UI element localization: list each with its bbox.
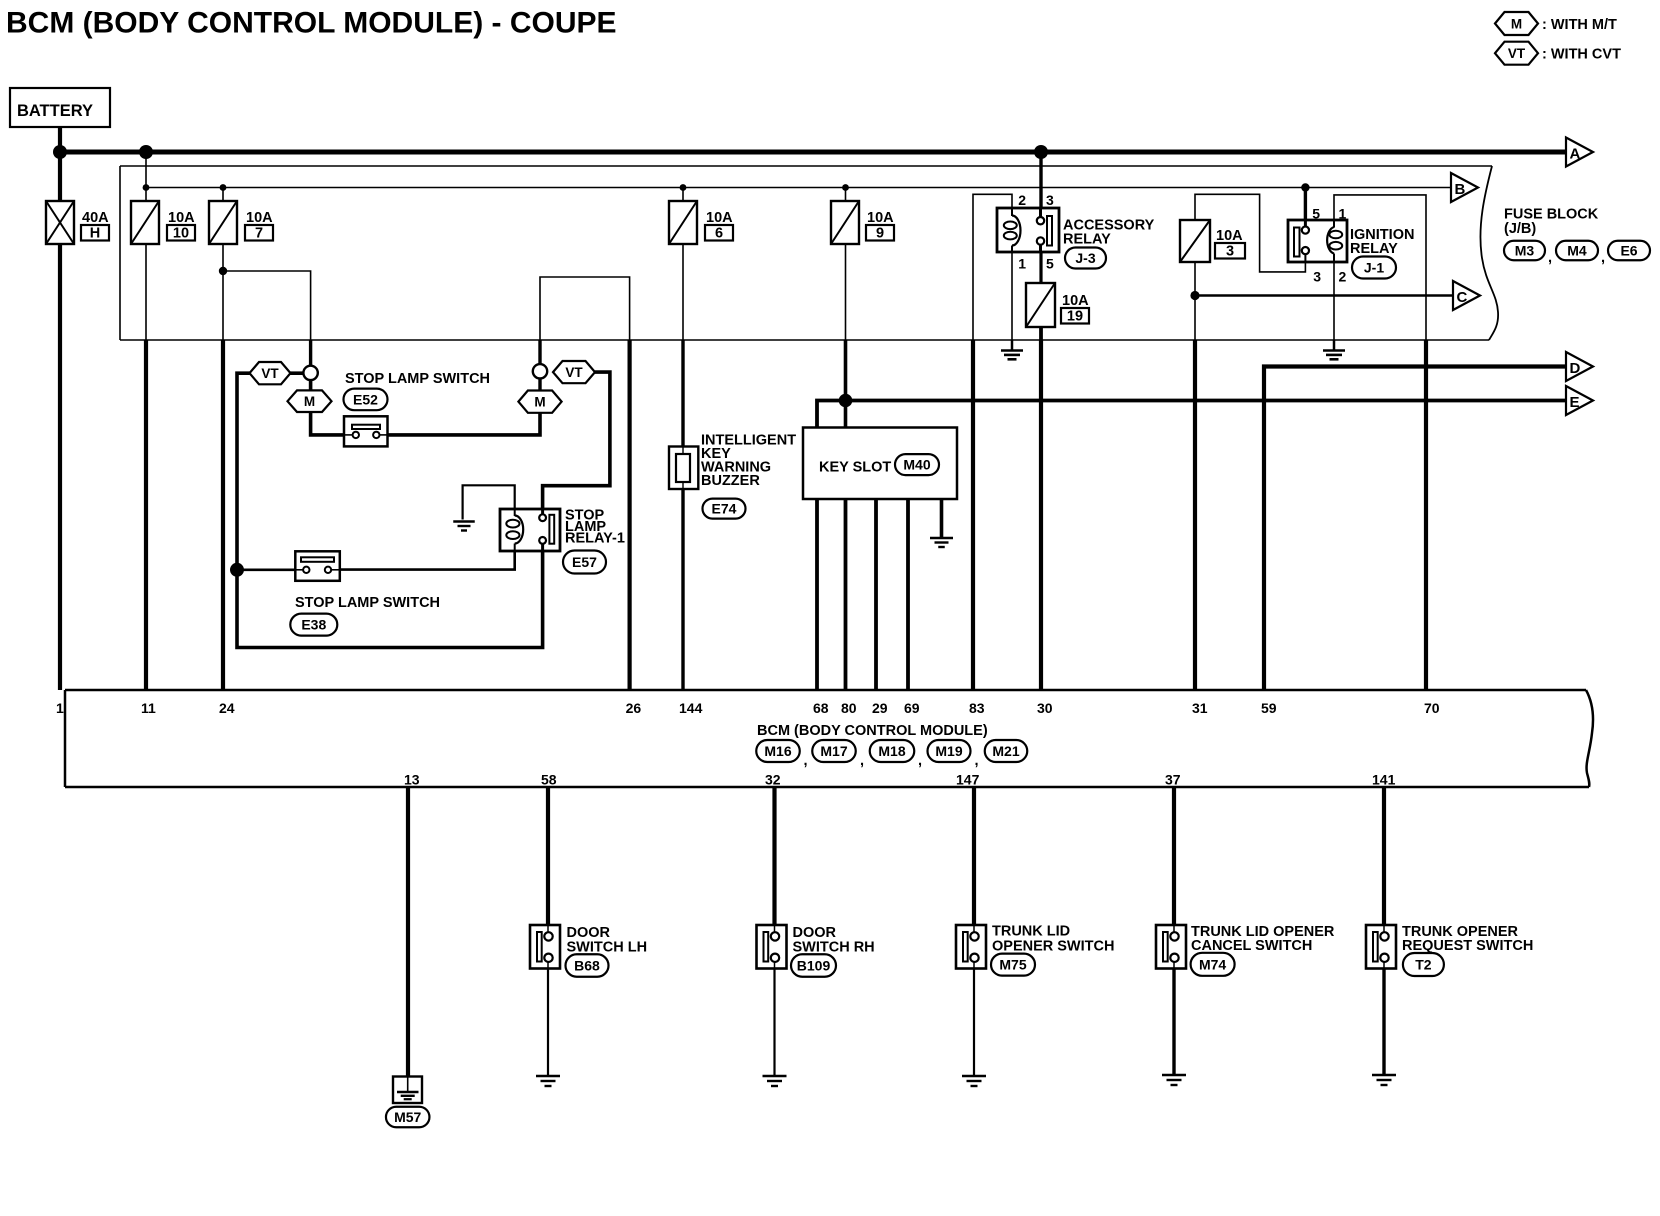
svg-text:M75: M75 [999, 957, 1026, 973]
arrow D [1566, 352, 1593, 381]
ground accessory relay [1001, 349, 1023, 352]
ground stop lamp relay-1 [453, 520, 475, 522]
ground trunk lid opener cancel switch [1162, 1074, 1186, 1076]
wire to arrow E from fuse 9 / key slot [817, 401, 1566, 431]
svg-text:VT: VT [565, 365, 583, 380]
connector oval E52 [344, 389, 388, 411]
svg-text:E52: E52 [353, 391, 378, 407]
svg-text:68: 68 [813, 700, 829, 716]
fuse 10A 3 [1180, 220, 1210, 262]
wire bus to accessory relay pin 3 [1039, 152, 1042, 210]
hexagon M right [518, 391, 561, 413]
svg-text:RELAY: RELAY [1063, 232, 1111, 248]
wire J/B to BCM pin 24 [221, 340, 225, 690]
svg-text:2: 2 [1018, 192, 1026, 208]
connector oval B109 [791, 954, 836, 977]
svg-text:1: 1 [1339, 206, 1347, 222]
E57 contact [541, 509, 544, 515]
wire trunk lid opener cancel switch to ground [1172, 969, 1175, 1076]
svg-text:9: 9 [876, 226, 884, 242]
ground ignition relay [1323, 349, 1345, 352]
connector oval M57 [386, 1107, 430, 1128]
svg-text:10A: 10A [1062, 293, 1089, 309]
BCM box top edge [65, 689, 1586, 692]
ground door switch LH [536, 1075, 560, 1077]
junction dot bus accessory-relay feed [1034, 145, 1048, 159]
wire fuse 10 to J/B edge [145, 244, 147, 340]
junction dot stop lamp branch [219, 267, 227, 275]
trunk lid opener switch M75 [956, 925, 986, 969]
svg-text:3: 3 [1046, 192, 1054, 208]
wire internal bus to ignition relay pin 5 [1304, 188, 1307, 223]
junction dot battery/bus [53, 145, 67, 159]
wire door switch LH to ground [547, 969, 549, 1077]
ignition relay contact [1304, 220, 1307, 227]
svg-text:32: 32 [765, 772, 781, 788]
svg-text:E74: E74 [712, 501, 737, 517]
svg-text:T2: T2 [1415, 957, 1432, 973]
junction circle right [533, 364, 547, 378]
wire buzzer to BCM pin 144 [681, 488, 684, 690]
arrow E [1566, 386, 1593, 415]
connector oval E38 [290, 614, 337, 636]
svg-text:70: 70 [1424, 700, 1440, 716]
svg-text:144: 144 [679, 700, 703, 716]
wire fuse 3 down to C line and BCM pin 31 [1194, 262, 1196, 340]
wire BCM pin 141 to trunk opener request switch [1382, 787, 1386, 925]
connector oval M19 [928, 740, 971, 762]
connector oval E74 [703, 499, 746, 519]
svg-text:7: 7 [255, 226, 263, 242]
wire trunk lid opener switch to ground [973, 969, 975, 1077]
junction circle left [303, 366, 317, 380]
fuse block J/B top edge [120, 165, 1492, 167]
wire fuse7 branch feed to right VT/M junction and BCM pin 26 [540, 277, 630, 365]
wire ignition relay pin 1 to BCM pin 70 [1334, 195, 1426, 340]
wire bus to fuse 10 [145, 152, 147, 201]
accessory relay coil [1011, 208, 1013, 216]
svg-text:10: 10 [173, 226, 189, 242]
wire key slot pin to BCM pin 29 [874, 499, 878, 690]
svg-text:M19: M19 [935, 743, 962, 759]
svg-text:3: 3 [1226, 244, 1234, 260]
wire internal bus to fuse 9 [845, 188, 847, 202]
svg-text:M3: M3 [1515, 243, 1535, 259]
connector oval M17 [812, 740, 856, 762]
svg-text:13: 13 [404, 772, 420, 788]
svg-text:STOP LAMP SWITCH: STOP LAMP SWITCH [345, 371, 490, 387]
svg-text:5: 5 [1046, 256, 1054, 272]
intelligent key warning buzzer E74 box [669, 447, 698, 490]
BCM box wavy right edge [1586, 690, 1593, 787]
wire fuse 6 to J/B edge [682, 244, 684, 340]
svg-text:10A: 10A [867, 210, 894, 226]
connector oval M18 [870, 740, 915, 762]
fuse 10A 19 [1026, 283, 1055, 327]
svg-text:29: 29 [872, 700, 888, 716]
svg-text:E6: E6 [1620, 243, 1637, 259]
svg-text:STOP LAMP SWITCH: STOP LAMP SWITCH [295, 595, 440, 611]
svg-text:58: 58 [541, 772, 557, 788]
svg-text:M: M [304, 394, 315, 409]
ground door switch RH [763, 1075, 787, 1077]
svg-text:40A: 40A [82, 210, 109, 226]
stop lamp switch E52 box [344, 416, 388, 446]
wire to arrow D and BCM pin 59 [1264, 367, 1566, 691]
wire trunk opener request switch to ground [1382, 969, 1385, 1076]
wire accessory relay pin 2 to BCM pin 83 [973, 194, 1012, 340]
wire ignition relay pin 2 to ground [1333, 262, 1335, 340]
junction dot internal bus ignition relay [1301, 183, 1309, 191]
connector oval M4 [1556, 241, 1598, 261]
wire BCM pin 32 to door switch RH [772, 787, 776, 925]
key slot M40 box [803, 428, 957, 500]
arrow A [1566, 138, 1593, 167]
svg-text:141: 141 [1372, 772, 1396, 788]
wire fuse 9 to key slot [844, 340, 848, 430]
svg-text:BCM (BODY CONTROL MODULE) - CO: BCM (BODY CONTROL MODULE) - COUPE [6, 7, 617, 40]
svg-text:RELAY-1: RELAY-1 [565, 531, 625, 547]
fuse block J/B wavy right edge [1480, 166, 1498, 340]
junction dot internal bus fuse 9 [842, 184, 849, 191]
trunk opener request switch T2 [1366, 925, 1396, 969]
stop lamp switch E38 box [295, 551, 340, 581]
BCM box left edge [64, 690, 67, 787]
wire VT to junction circle [291, 371, 304, 375]
connector oval M40 [895, 454, 939, 475]
wire BCM pin 37 to trunk lid opener cancel switch [1172, 787, 1176, 925]
svg-text:BUZZER: BUZZER [701, 473, 760, 489]
wire branch to left VT/M junction [223, 271, 311, 340]
svg-text:69: 69 [904, 700, 920, 716]
wire accessory relay pin 1 to ground [1011, 252, 1013, 340]
connector oval J-3 [1065, 248, 1106, 269]
svg-text:M40: M40 [903, 457, 930, 473]
junction dot E38 branch [230, 563, 244, 577]
svg-text:10A: 10A [706, 210, 733, 226]
connector oval E6 [1608, 241, 1650, 261]
svg-text:M57: M57 [394, 1109, 421, 1125]
svg-text:80: 80 [841, 700, 857, 716]
svg-text:,: , [918, 753, 922, 769]
wire accessory relay pin 5 to fuse 19 [1039, 252, 1042, 283]
fusible link 40A H [46, 201, 74, 244]
wire internal bus to fuse 7 [222, 188, 224, 202]
junction dot internal bus fuse 7 [220, 184, 227, 191]
svg-text:KEY SLOT: KEY SLOT [819, 460, 891, 476]
svg-text:A: A [1570, 146, 1581, 163]
svg-text:OPENER SWITCH: OPENER SWITCH [992, 939, 1114, 955]
svg-text:B109: B109 [797, 958, 831, 974]
svg-text:M17: M17 [820, 743, 847, 759]
ignition relay coil [1333, 220, 1335, 228]
connector oval M74 [1191, 953, 1235, 976]
wire door switch RH to ground [773, 969, 775, 1077]
wire M hexagon to E52 [311, 380, 344, 435]
svg-text:5: 5 [1312, 206, 1320, 222]
svg-text:83: 83 [969, 700, 985, 716]
wire internal bus to fuse 6 [682, 188, 684, 202]
svg-text:59: 59 [1261, 700, 1277, 716]
connector oval M21 [985, 740, 1028, 762]
wire junction circle to M hexagon right [538, 378, 541, 391]
svg-text:10A: 10A [1216, 228, 1243, 244]
svg-text:: WITH M/T: : WITH M/T [1542, 17, 1617, 33]
wire fusible link H to BCM pin 1 [58, 244, 62, 690]
hexagon M left (with M/T) [288, 390, 332, 412]
J/B internal bus wire to arrow B [145, 187, 1451, 189]
svg-text:37: 37 [1165, 772, 1181, 788]
wire key slot ground pin [940, 499, 944, 538]
ground key slot [930, 537, 953, 539]
svg-text:M: M [1511, 17, 1522, 32]
svg-text:M74: M74 [1199, 956, 1226, 972]
fuse 10A 10 [131, 201, 159, 244]
svg-text:10A: 10A [168, 210, 195, 226]
svg-text:30: 30 [1037, 700, 1053, 716]
wire fuse 9 to J/B edge [845, 244, 847, 340]
svg-text:B68: B68 [574, 958, 600, 974]
wire to arrow C [1195, 294, 1453, 297]
connector oval J-1 [1352, 257, 1396, 279]
connector oval M3 [1504, 241, 1545, 261]
svg-text:C: C [1457, 289, 1468, 306]
trunk lid opener cancel switch M74 [1156, 925, 1186, 969]
svg-text:E57: E57 [572, 554, 597, 570]
svg-text:,: , [975, 753, 979, 769]
svg-text:1: 1 [1018, 256, 1026, 272]
wire battery to bus [58, 124, 62, 203]
svg-text:: WITH CVT: : WITH CVT [1542, 47, 1621, 63]
BCM box bottom edge [65, 786, 1589, 789]
wire fuse 19 to BCM pin 30 [1039, 327, 1043, 340]
connector oval E57 [563, 551, 606, 574]
svg-text:19: 19 [1067, 309, 1083, 325]
svg-text:SWITCH RH: SWITCH RH [793, 940, 875, 956]
svg-text:TRUNK LID: TRUNK LID [992, 924, 1070, 940]
svg-text:M4: M4 [1567, 243, 1587, 259]
battery B+ bus wire A [60, 150, 1566, 155]
wire key slot pin to BCM pin 69 [906, 499, 910, 690]
connector oval M75 [991, 954, 1035, 976]
wire junction dot to E38 switch [237, 568, 296, 571]
wire J/B to buzzer [681, 340, 684, 447]
junction dot bus fuse-block feed [139, 145, 153, 159]
svg-text:,: , [1548, 250, 1552, 266]
svg-text:B: B [1455, 181, 1466, 198]
hexagon VT right [553, 361, 595, 383]
svg-text:SWITCH LH: SWITCH LH [567, 940, 648, 956]
battery box [10, 88, 110, 127]
wire J/B to BCM pin 11 [144, 340, 148, 690]
svg-text:E38: E38 [301, 617, 326, 633]
svg-text:E: E [1570, 394, 1580, 411]
wire ignition relay pin 3 to fuse 3 (zigzag) [1195, 194, 1305, 272]
svg-text:H: H [90, 226, 100, 242]
fuse 10A 9 [831, 201, 859, 244]
legend hexagon M : WITH M/T [1495, 12, 1538, 35]
connector oval M16 [756, 740, 800, 762]
accessory relay contact [1039, 208, 1042, 217]
svg-text:J-3: J-3 [1075, 250, 1095, 266]
svg-text:26: 26 [626, 700, 642, 716]
fuse 10A 7 [209, 201, 237, 244]
arrow C [1453, 281, 1480, 310]
wire BCM pin 147 to trunk lid opener switch [972, 787, 976, 925]
wire fuse 7 down [222, 244, 224, 340]
svg-text:J-1: J-1 [1364, 260, 1384, 276]
svg-text:D: D [1570, 360, 1581, 377]
svg-text:1: 1 [56, 700, 64, 716]
door switch RH B109 [757, 925, 787, 969]
junction dot internal bus fuse 6 [680, 184, 687, 191]
svg-text:BATTERY: BATTERY [17, 102, 93, 120]
wire E57 coil to E38 switch [341, 551, 515, 570]
ignition relay J-1 box [1288, 220, 1347, 262]
svg-text:2: 2 [1339, 269, 1347, 285]
ground trunk lid opener switch [962, 1075, 986, 1077]
svg-text:31: 31 [1192, 700, 1208, 716]
svg-text:VT: VT [261, 366, 279, 381]
connector oval T2 [1403, 953, 1444, 976]
accessory relay J-3 box [997, 208, 1059, 252]
fuse block J/B bottom edge [120, 339, 1489, 341]
E57 coil [514, 509, 516, 516]
door switch LH B68 [530, 925, 560, 969]
ground trunk opener request switch [1372, 1074, 1396, 1076]
svg-text:3: 3 [1313, 269, 1321, 285]
svg-text:,: , [804, 753, 808, 769]
junction dot internal bus fuse 10 [143, 184, 150, 191]
svg-text:CANCEL SWITCH: CANCEL SWITCH [1191, 938, 1312, 954]
svg-text:(J/B): (J/B) [1504, 221, 1536, 237]
svg-text:VT: VT [1508, 46, 1526, 61]
svg-text:11: 11 [141, 700, 156, 716]
hexagon VT left (with CVT) [250, 362, 291, 384]
svg-text:,: , [1601, 250, 1605, 266]
svg-text:BCM (BODY CONTROL MODULE): BCM (BODY CONTROL MODULE) [757, 723, 988, 739]
svg-text:M16: M16 [764, 743, 791, 759]
junction dot key slot feed [839, 394, 853, 408]
legend hexagon VT : WITH CVT [1495, 42, 1538, 65]
arrow B [1451, 173, 1478, 202]
connector oval B68 [566, 954, 609, 977]
wire E52 to right M hexagon [388, 412, 541, 435]
wire VT right branch to stop lamp relay contact [543, 372, 610, 510]
fuse block J/B left edge [119, 166, 121, 340]
svg-text:RELAY: RELAY [1350, 241, 1398, 257]
wire E57 coil to ground [463, 485, 515, 519]
ground plate M57 [393, 1077, 422, 1104]
svg-text:,: , [860, 753, 864, 769]
wire key slot pin to BCM pin 68 [815, 427, 819, 690]
svg-text:6: 6 [715, 226, 723, 242]
svg-text:M18: M18 [878, 743, 905, 759]
svg-text:M21: M21 [992, 743, 1019, 759]
svg-text:147: 147 [956, 772, 980, 788]
stop lamp relay-1 E57 box [500, 509, 560, 551]
junction dot fuse 3 output [1190, 291, 1199, 300]
wire key slot pin to BCM pin 80 [844, 427, 848, 690]
wire VT hexagon left branch [237, 373, 543, 647]
fuse 10A 6 [669, 201, 697, 244]
svg-text:REQUEST SWITCH: REQUEST SWITCH [1402, 938, 1533, 954]
svg-text:M: M [534, 395, 545, 410]
svg-text:24: 24 [219, 700, 235, 716]
wire BCM pin 58 to door switch LH [546, 787, 550, 925]
svg-text:10A: 10A [246, 210, 273, 226]
wire BCM pin 13 to ground M57 [406, 787, 410, 1077]
